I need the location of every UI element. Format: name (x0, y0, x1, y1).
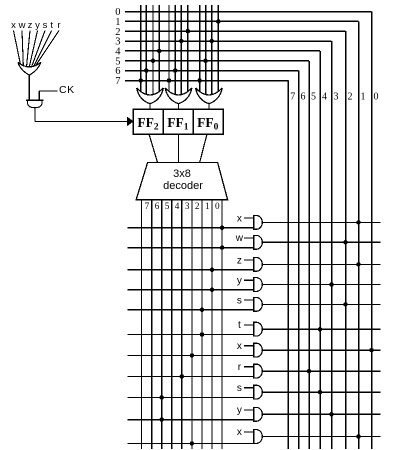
svg-text:3x8: 3x8 (173, 168, 191, 180)
svg-text:7: 7 (290, 92, 295, 103)
svg-text:7: 7 (145, 201, 150, 211)
svg-text:4: 4 (175, 201, 180, 211)
svg-text:t: t (238, 320, 241, 331)
svg-text:x: x (237, 213, 242, 224)
svg-text:s: s (237, 295, 242, 306)
svg-text:decoder: decoder (163, 180, 203, 192)
svg-text:t: t (50, 20, 53, 31)
svg-text:4: 4 (322, 92, 327, 103)
svg-text:x: x (237, 341, 242, 352)
svg-text:2: 2 (195, 201, 200, 211)
svg-text:w: w (18, 20, 26, 31)
svg-text:6: 6 (155, 201, 160, 211)
svg-text:CK: CK (59, 84, 75, 96)
svg-text:7: 7 (115, 76, 120, 87)
svg-text:y: y (237, 405, 242, 416)
svg-text:1: 1 (205, 201, 210, 211)
svg-text:s: s (43, 20, 48, 31)
svg-text:2: 2 (348, 92, 353, 103)
svg-text:z: z (28, 20, 33, 31)
svg-text:y: y (35, 20, 40, 31)
svg-text:w: w (235, 233, 244, 244)
svg-text:0: 0 (374, 92, 379, 103)
svg-text:5: 5 (165, 201, 170, 211)
svg-text:x: x (237, 427, 242, 438)
svg-text:s: s (237, 383, 242, 394)
svg-text:z: z (237, 255, 242, 266)
svg-text:5: 5 (311, 92, 316, 103)
svg-text:x: x (11, 20, 16, 31)
svg-text:0: 0 (215, 201, 220, 211)
svg-text:3: 3 (185, 201, 190, 211)
svg-text:6: 6 (301, 92, 306, 103)
svg-text:y: y (237, 275, 242, 286)
svg-text:r: r (57, 20, 60, 31)
svg-text:3: 3 (334, 92, 339, 103)
svg-text:1: 1 (361, 92, 366, 103)
